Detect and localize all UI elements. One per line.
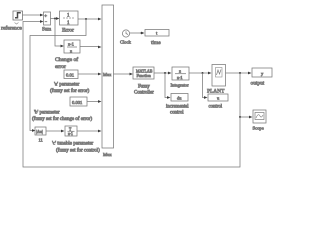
- svg-text:Clock: Clock: [120, 40, 132, 45]
- label Sum: [42, 28, 51, 33]
- wire reference to Sum: [23, 14, 44, 17]
- wire branch down to Scope: [239, 73, 253, 118]
- block reference (step source): [13, 11, 23, 20]
- label Mux: [103, 152, 112, 157]
- svg-text:z: z: [179, 68, 181, 73]
- to-workspace block y (output): [252, 68, 272, 77]
- wire Mux to MATLAB Fcn: [114, 73, 134, 76]
- svg-text:Change of: Change of: [55, 56, 78, 63]
- svg-text:output: output: [251, 81, 265, 87]
- svg-text:Fuzzy: Fuzzy: [138, 85, 150, 90]
- to-workspace block time: [145, 30, 169, 37]
- svg-text:control: control: [170, 111, 184, 116]
- constant block 0.01 ('a' parameter): [64, 70, 78, 79]
- mark 11 under abs block: [39, 138, 43, 143]
- filter block (c tuning): [65, 126, 77, 136]
- svg-text:time: time: [151, 40, 161, 46]
- svg-text:z-1: z-1: [177, 75, 183, 80]
- constant block 0.001 ('b' parameter): [70, 97, 87, 106]
- label time: [151, 40, 161, 46]
- wire abs to filter block: [46, 130, 65, 133]
- wire PLANT to output with junction: [226, 72, 252, 75]
- label Fuzzy Controller: [134, 85, 154, 96]
- label a parameter: [50, 83, 90, 95]
- wire Change of error to Mux input 2: [80, 46, 102, 49]
- svg-text:Scope: Scope: [253, 126, 264, 131]
- svg-text:PLANT: PLANT: [207, 89, 225, 95]
- to-workspace block du: [171, 94, 188, 102]
- svg-text:z-1: z-1: [68, 42, 75, 47]
- svg-text:Function: Function: [137, 73, 151, 78]
- wire Clock to time: [130, 32, 145, 35]
- svg-text:Controller: Controller: [134, 91, 154, 96]
- adder Sum: [44, 12, 51, 25]
- wire Sum to Error with junction: [51, 17, 60, 20]
- label Clock: [120, 40, 132, 45]
- wire feedback loop from output down around to Sum minus input: [23, 20, 240, 167]
- svg-text:'c' tunable parameter: 'c' tunable parameter: [52, 142, 94, 147]
- svg-text:'a' parameter: 'a' parameter: [54, 83, 80, 88]
- block Change of error (z-1)/z: [64, 40, 80, 53]
- step glyph under reference: [15, 23, 19, 25]
- label reference: [1, 25, 22, 32]
- abs block |du|: [35, 127, 46, 135]
- label b parameter: [32, 111, 92, 123]
- svg-text:z: z: [70, 48, 72, 53]
- svg-text:(fuzzy set for control): (fuzzy set for control): [56, 149, 100, 154]
- svg-text:Mux: Mux: [103, 72, 112, 77]
- block Error (gain 1/1): [60, 11, 79, 26]
- label control: [209, 105, 223, 110]
- label Error: [62, 28, 74, 34]
- wire Error to Mux input 1 with junction node: [78, 18, 102, 21]
- svg-text:Integrator: Integrator: [171, 83, 190, 88]
- label c tunable parameter: [52, 142, 100, 154]
- wire Integrator to PLANT with junction: [189, 72, 212, 75]
- label output: [251, 81, 265, 87]
- svg-text:z-1: z-1: [68, 132, 73, 136]
- wire branch down to u block: [203, 73, 208, 99]
- svg-text:(fuzzy set for error): (fuzzy set for error): [50, 89, 90, 94]
- label incremental control: [166, 105, 189, 116]
- wire MATLAB Fcn to Integrator with junction: [154, 72, 172, 75]
- svg-text:0.001: 0.001: [72, 100, 83, 105]
- wire Sum branch down to Change of error: [55, 19, 64, 48]
- wire branch from Error line down-left to |du| chain: [30, 19, 86, 132]
- svg-text:Error: Error: [62, 28, 74, 34]
- wire 0.01 to Mux input 3: [78, 73, 102, 76]
- wire filter to Mux input 5: [77, 130, 102, 133]
- svg-text:Mux: Mux: [103, 152, 112, 157]
- svg-text:0.01: 0.01: [66, 73, 75, 78]
- svg-text:reference: reference: [1, 25, 22, 32]
- to-workspace block u (control): [208, 94, 228, 101]
- svg-text:Sum: Sum: [42, 28, 51, 33]
- matlab-fcn block MATLAB Function: [133, 67, 154, 79]
- svg-text:'b' parameter: 'b' parameter: [34, 111, 60, 116]
- label Scope: [253, 126, 264, 131]
- label Change of error: [55, 56, 78, 70]
- plant block PLANT: [212, 65, 226, 87]
- svg-text:(fuzzy set for change of error: (fuzzy set for change of error): [32, 117, 92, 122]
- clock Clock: [122, 30, 129, 37]
- wire 0.001 to Mux input 4: [87, 100, 102, 103]
- mux Mux: [102, 5, 114, 148]
- svg-text:+: +: [44, 15, 47, 20]
- svg-text:11: 11: [39, 138, 43, 143]
- label PLANT: [207, 89, 225, 95]
- integrator block z/(z-1): [172, 67, 189, 80]
- wire branch down to du block: [165, 73, 171, 99]
- svg-text:error: error: [55, 64, 66, 70]
- label Integrator: [171, 83, 190, 88]
- svg-text:control: control: [209, 105, 223, 110]
- svg-text:incremental: incremental: [166, 105, 189, 110]
- scope block Scope: [253, 110, 266, 123]
- svg-text:|Δu|: |Δu|: [36, 129, 43, 134]
